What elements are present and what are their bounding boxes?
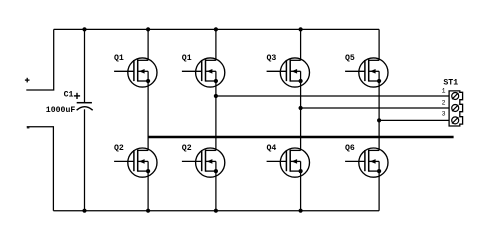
transistor Q3 (column 3 high side): [267, 54, 310, 87]
junction bottom rail / C1: [82, 209, 86, 213]
capacitor C1: [46, 90, 93, 115]
wire bottom rail: [53, 210, 379, 212]
svg-text:1000uF: 1000uF: [46, 106, 76, 115]
node + (positive input): [25, 78, 30, 83]
junction bottom rail / column 2: [214, 209, 218, 213]
svg-text:3: 3: [442, 111, 446, 118]
junction top rail / column 1: [146, 27, 150, 31]
wire column 4 (Q5/Q6 half-bridge): [378, 29, 380, 210]
transistor Q4 (column 3 low side): [267, 144, 310, 177]
svg-text:Q3: Q3: [267, 54, 277, 63]
svg-text:Q2: Q2: [114, 144, 124, 153]
transistor Q1 (column 2 high side): [182, 54, 225, 87]
svg-text:Q1: Q1: [182, 54, 192, 63]
svg-text:Q6: Q6: [345, 144, 355, 153]
wire left positive terminal: [26, 29, 53, 90]
transistor Q6 (column 4 low side): [345, 144, 388, 177]
wire capacitor C1 top lead: [84, 29, 86, 102]
wire to ST1 pin 3: [379, 119, 449, 121]
svg-text:Q4: Q4: [267, 144, 277, 153]
transistor Q2 (column 2 low side): [182, 144, 225, 177]
screw terminal 3: [452, 117, 459, 124]
wire to ST1 pin 2: [301, 107, 450, 109]
svg-text:Q5: Q5: [345, 54, 355, 63]
svg-text:2: 2: [442, 99, 446, 106]
junction top rail / column 3: [299, 27, 303, 31]
wire column 2 (Q1/Q2 half-bridge): [215, 29, 217, 210]
junction column 3 / ST1 pin 2 wire: [299, 106, 303, 110]
transistor Q5 (column 4 high side): [345, 54, 388, 87]
screw terminal 1: [452, 93, 459, 100]
svg-text:1: 1: [442, 88, 446, 95]
svg-text:Q1: Q1: [114, 54, 124, 63]
transistor Q2 (column 1 low side): [114, 144, 157, 177]
junction top rail / column 2: [214, 27, 218, 31]
wire to ST1 pin 1: [216, 95, 449, 97]
screw terminal 2: [452, 105, 459, 112]
svg-text:C1: C1: [64, 90, 74, 99]
wire top rail: [54, 28, 379, 30]
junction top rail / C1: [82, 27, 86, 31]
junction bottom rail / column 1: [146, 209, 150, 213]
junction bottom rail / column 3: [299, 209, 303, 213]
wire thick phase bus: [148, 136, 454, 139]
pin tick negative terminal: [27, 127, 30, 129]
wire column 3 (Q3/Q4 half-bridge): [300, 29, 302, 210]
wire capacitor C1 bottom lead: [84, 109, 86, 210]
transistor Q1 (column 1 high side): [114, 54, 157, 87]
wire column 1 (Q1/Q2 half-bridge): [147, 29, 149, 210]
junction column 4 / ST1 pin 3 wire: [377, 118, 381, 122]
junction column 2 / ST1 pin 1 wire: [214, 94, 218, 98]
connector ST1 terminal block: [442, 79, 463, 127]
svg-text:Q2: Q2: [182, 144, 192, 153]
svg-text:ST1: ST1: [443, 79, 458, 88]
wire left negative terminal: [27, 127, 54, 211]
